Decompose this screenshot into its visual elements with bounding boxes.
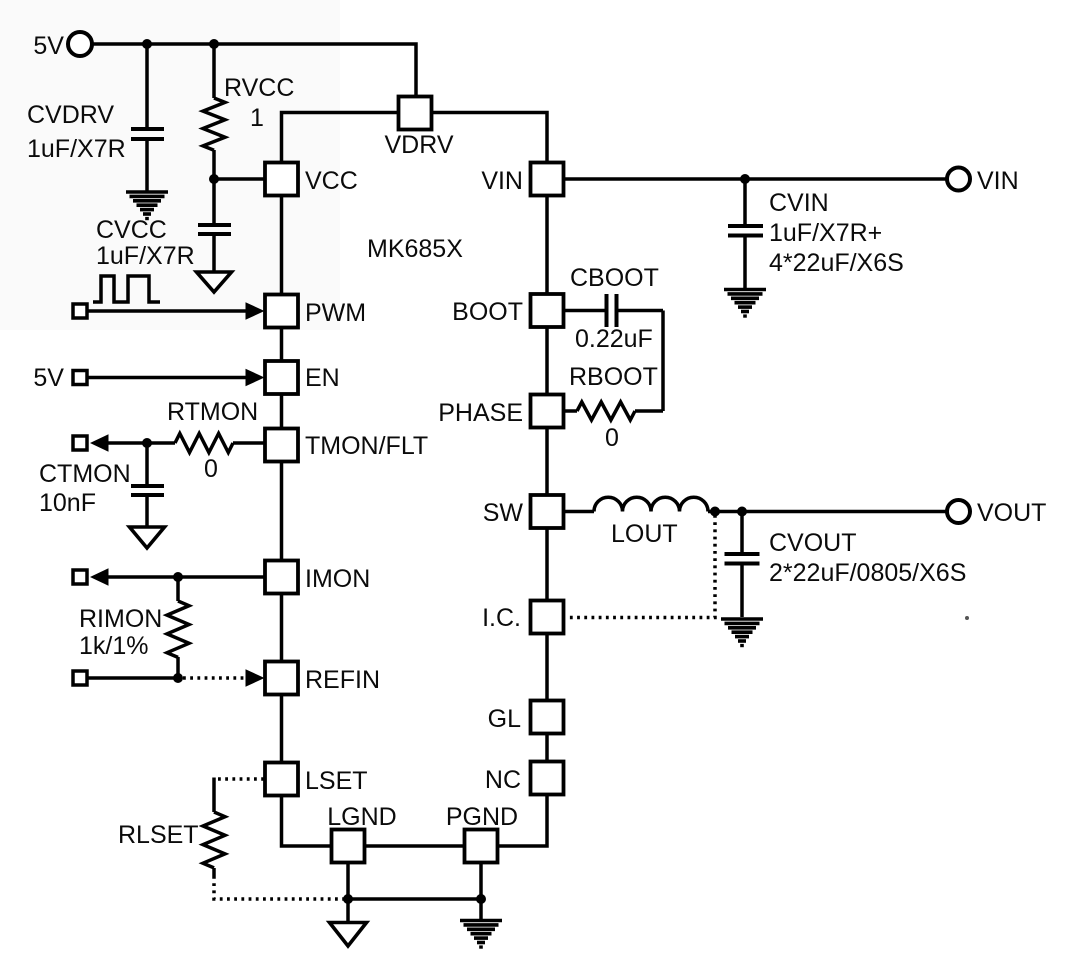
- svg-text:PGND: PGND: [446, 803, 518, 831]
- resistor RIMON: [167, 577, 189, 678]
- svg-text:1: 1: [250, 104, 264, 132]
- capacitor CTMON: [131, 443, 164, 527]
- svg-text:0: 0: [605, 424, 619, 452]
- capacitor CVDRV: [131, 44, 164, 191]
- wire PWM input: [88, 309, 247, 313]
- wire PGND junction to earth: [479, 899, 483, 920]
- svg-text:1uF/X7R: 1uF/X7R: [96, 242, 195, 270]
- wire RVCC to VCC pin: [214, 177, 265, 181]
- node junction 5V/RVCC: [209, 39, 219, 49]
- svg-text:NC: NC: [485, 766, 521, 794]
- terminal 5V: [68, 32, 92, 56]
- wire REFIN input: [88, 676, 178, 680]
- node junction RVCC/CVCC: [209, 174, 219, 184]
- stray mark dot: [965, 616, 969, 620]
- svg-text:5V: 5V: [33, 364, 64, 392]
- pin REFIN: [265, 662, 298, 695]
- wire LSET corner to RLSET: [212, 778, 216, 813]
- terminal input EN: [73, 371, 87, 385]
- resistor RVCC: [203, 44, 225, 179]
- pin BOOT: [531, 294, 564, 327]
- pin I.C.: [531, 601, 564, 634]
- svg-text:PWM: PWM: [305, 299, 366, 327]
- svg-text:10nF: 10nF: [39, 489, 96, 517]
- ground earth CVOUT: [721, 619, 763, 647]
- pin EN: [265, 361, 298, 394]
- IC body MK685X outline: [282, 113, 548, 847]
- ground earth PGND: [460, 921, 502, 949]
- wire LGND down: [346, 862, 350, 899]
- node junction VIN/CVIN: [740, 174, 750, 184]
- resistor RTMON: [175, 434, 233, 453]
- arrow into EN pin: [246, 369, 265, 387]
- pin PWM: [265, 295, 298, 328]
- node junction LGND ground: [343, 894, 353, 904]
- pin TMON/FLT: [265, 429, 298, 462]
- pin VCC: [265, 163, 298, 196]
- svg-text:SW: SW: [483, 499, 524, 527]
- resistor RBOOT: [563, 402, 663, 420]
- inductor LOUT: [594, 497, 708, 511]
- wire PGND down: [479, 862, 483, 899]
- svg-text:RIMON: RIMON: [79, 605, 162, 633]
- node junction TMON/CTMON: [142, 438, 152, 448]
- wire EN input: [88, 376, 247, 380]
- svg-text:LSET: LSET: [305, 767, 368, 795]
- svg-text:IMON: IMON: [305, 565, 370, 593]
- wire dotted RLSET to ground rail: [214, 876, 346, 899]
- wire TMON row: [107, 441, 175, 445]
- svg-text:1uF/X7R: 1uF/X7R: [27, 135, 126, 163]
- svg-text:CVDRV: CVDRV: [27, 101, 114, 129]
- svg-text:RVCC: RVCC: [224, 74, 294, 102]
- node junction LOUT/IC dotted: [710, 507, 720, 517]
- wire SW to LOUT: [563, 510, 594, 514]
- wire dotted LSET: [216, 777, 264, 781]
- svg-text:LOUT: LOUT: [611, 520, 678, 548]
- arrow out of TMON/FLT: [90, 434, 109, 452]
- wire LGND junction to triangle: [346, 899, 350, 922]
- pin PGND: [465, 830, 498, 863]
- node junction CVOUT: [737, 507, 747, 517]
- svg-text:1uF/X7R+: 1uF/X7R+: [769, 219, 882, 247]
- capacitor CVOUT: [725, 512, 760, 618]
- svg-text:PHASE: PHASE: [438, 399, 523, 427]
- svg-text:GL: GL: [488, 705, 521, 733]
- capacitor CBOOT: [563, 294, 663, 327]
- svg-text:1k/1%: 1k/1%: [79, 632, 148, 660]
- ground triangle CTMON: [130, 527, 165, 548]
- signal PWM pulse waveform: [93, 276, 160, 302]
- pin LSET: [265, 763, 298, 796]
- arrow out of IMON: [90, 568, 109, 586]
- svg-text:RLSET: RLSET: [118, 821, 199, 849]
- pin GL: [531, 701, 564, 734]
- svg-text:EN: EN: [305, 364, 340, 392]
- wire dotted I.C. to SW node: [566, 515, 715, 618]
- svg-text:4*22uF/X6S: 4*22uF/X6S: [769, 249, 904, 277]
- svg-text:RTMON: RTMON: [167, 398, 258, 426]
- svg-text:0.22uF: 0.22uF: [575, 325, 653, 353]
- resistor RLSET: [203, 812, 225, 876]
- wire SW rail to VOUT: [708, 510, 947, 514]
- pin LGND: [332, 830, 365, 863]
- svg-text:VIN: VIN: [481, 167, 523, 195]
- node junction 5V/CVDRV: [142, 39, 152, 49]
- wire ground rail: [348, 897, 481, 901]
- pin VDRV: [399, 97, 432, 130]
- ground triangle LGND: [330, 923, 367, 947]
- terminal output TMON: [73, 436, 87, 450]
- pin SW: [531, 495, 564, 528]
- ground earth CVDRV: [126, 192, 168, 220]
- svg-text:VOUT: VOUT: [977, 499, 1046, 527]
- pin PHASE: [531, 395, 564, 428]
- capacitor CVIN: [728, 179, 763, 288]
- svg-text:VDRV: VDRV: [384, 131, 453, 159]
- svg-text:RBOOT: RBOOT: [569, 363, 658, 391]
- wire RTMON to pin: [233, 441, 265, 445]
- arrow into REFIN pin: [246, 669, 265, 687]
- wire BOOT loop right side: [661, 311, 665, 412]
- node junction IMON/RIMON: [173, 572, 183, 582]
- svg-text:2*22uF/0805/X6S: 2*22uF/0805/X6S: [769, 559, 966, 587]
- pin NC: [531, 762, 564, 795]
- svg-text:REFIN: REFIN: [305, 666, 380, 694]
- terminal input PWM: [73, 304, 87, 318]
- svg-text:MK685X: MK685X: [367, 235, 463, 263]
- svg-text:CVCC: CVCC: [96, 216, 167, 244]
- wire IMON row: [107, 575, 265, 579]
- terminal output IMON: [73, 570, 87, 584]
- wire VIN rail: [563, 177, 946, 181]
- svg-text:5V: 5V: [33, 32, 64, 60]
- svg-text:BOOT: BOOT: [452, 298, 523, 326]
- svg-text:VIN: VIN: [977, 167, 1019, 195]
- terminal VIN: [947, 168, 970, 191]
- svg-text:CTMON: CTMON: [39, 460, 131, 488]
- svg-text:CBOOT: CBOOT: [570, 264, 659, 292]
- pin IMON: [265, 561, 298, 594]
- svg-text:0: 0: [204, 455, 218, 483]
- svg-text:LGND: LGND: [327, 803, 396, 831]
- pin VIN: [531, 163, 564, 196]
- arrow into PWM pin: [246, 302, 265, 320]
- svg-text:CVIN: CVIN: [769, 189, 829, 217]
- ground earth CVIN: [724, 290, 766, 318]
- svg-text:TMON/FLT: TMON/FLT: [305, 432, 428, 460]
- wire 5V rail to VDRV: [93, 44, 416, 96]
- svg-text:I.C.: I.C.: [482, 604, 521, 632]
- terminal input REFIN: [73, 671, 87, 685]
- capacitor CVCC: [198, 179, 231, 272]
- terminal VOUT: [947, 500, 970, 523]
- node junction RIMON/REFIN: [173, 673, 183, 683]
- wire dotted REFIN: [183, 676, 246, 680]
- svg-text:VCC: VCC: [305, 167, 358, 195]
- node junction PGND ground: [476, 894, 486, 904]
- ground triangle CVCC: [197, 272, 232, 292]
- svg-text:CVOUT: CVOUT: [769, 529, 857, 557]
